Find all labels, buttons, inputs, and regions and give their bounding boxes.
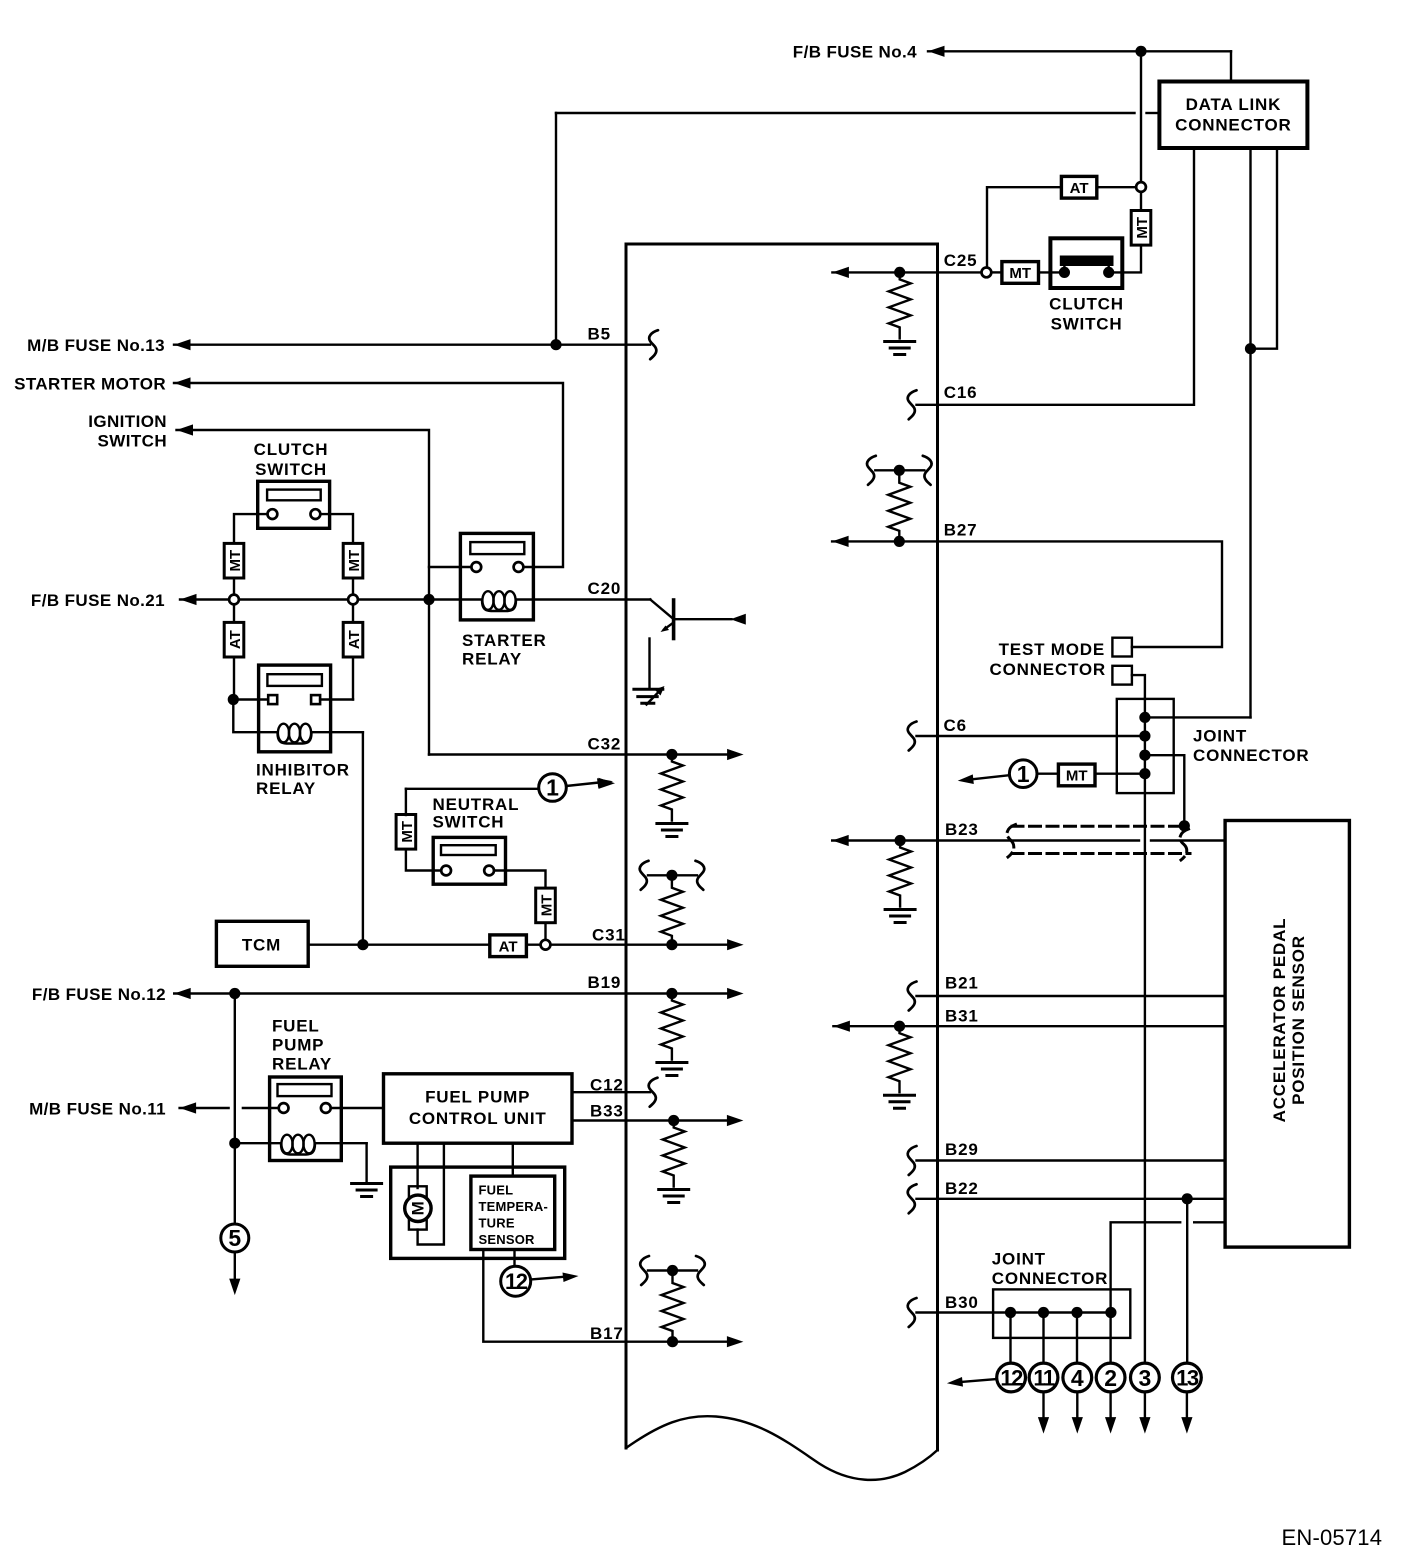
fuse tag MT vertical box [1131, 211, 1151, 246]
shield left end squiggle [1007, 825, 1015, 858]
svg-text:CLUTCH: CLUTCH [254, 440, 329, 459]
wire C31/TCM line [308, 944, 626, 946]
svg-text:FUEL: FUEL [479, 1183, 514, 1198]
svg-text:C12: C12 [590, 1076, 624, 1095]
ECM torn bottom edge [626, 1416, 938, 1480]
svg-text:13: 13 [1176, 1365, 1199, 1390]
wire coil to ground [365, 1143, 367, 1182]
svg-text:STARTER MOTOR: STARTER MOTOR [14, 375, 166, 394]
node junction B22 to circled 13 [1182, 1193, 1193, 1204]
svg-text:2: 2 [1104, 1365, 1117, 1391]
svg-text:M/B FUSE No.11: M/B FUSE No.11 [29, 1100, 166, 1119]
svg-text:INHIBITOR: INHIBITOR [256, 761, 350, 780]
circled 1 arrow into ECM [599, 778, 616, 789]
svg-text:NEUTRAL: NEUTRAL [433, 795, 520, 814]
wire STARTER MOTOR line [174, 383, 563, 567]
arrow from circled 1 to ECM [972, 775, 1010, 779]
svg-text:B30: B30 [945, 1293, 979, 1312]
break squiggle C12 [649, 1078, 658, 1107]
circled 13 [1173, 1363, 1202, 1392]
wire C16 line [917, 148, 1195, 405]
ECM box right edge [936, 244, 939, 1450]
arrow from circled 12 to ECM [961, 1379, 997, 1382]
wire circled 13 drop [1186, 1199, 1188, 1364]
node JC pin2 (C6) [1139, 730, 1150, 741]
node junction B17 [667, 1336, 678, 1347]
svg-text:B22: B22 [945, 1179, 979, 1198]
node junction inhibitor coil [357, 939, 368, 950]
svg-text:B29: B29 [945, 1140, 979, 1159]
wire feed down to circled 5 [234, 1143, 236, 1224]
wire M/B FUSE No.13 line [174, 344, 626, 346]
node junction B19 [666, 988, 677, 999]
wire through JC [1144, 699, 1146, 1363]
svg-text:5: 5 [228, 1225, 241, 1251]
wire B21 line [917, 995, 1226, 997]
svg-text:1: 1 [546, 775, 559, 801]
contact squares [268, 695, 277, 704]
wire pin1 to DLC drop [1145, 716, 1251, 718]
fuse tag MT box [1002, 262, 1039, 284]
resistor B27 pull-up (bar on top) [867, 456, 932, 542]
svg-text:M: M [408, 1201, 427, 1215]
wire C31 inside ECM [626, 944, 729, 946]
component FUEL PUMP RELAY [270, 1077, 342, 1161]
resistor C31 pull-up (bar on top) [640, 861, 705, 945]
circled 4 [1063, 1363, 1092, 1392]
node open circle C31 [541, 940, 551, 950]
wire C20 line [533, 598, 650, 600]
wire right contact out [320, 698, 353, 700]
svg-text:IGNITION: IGNITION [88, 412, 167, 431]
wire circled 5 to arrow [234, 1252, 236, 1280]
wire MT up to circled1 line [405, 789, 407, 815]
ECM box top edge [626, 243, 938, 246]
svg-text:B31: B31 [945, 1007, 979, 1026]
wire B29 line [917, 1159, 1226, 1161]
wire FPCU to fuel temp sensor [512, 1143, 514, 1176]
component CLUTCH SWITCH (top) box [1050, 238, 1122, 288]
node junction B27 [894, 536, 905, 547]
fuse tag AT on line [490, 935, 527, 957]
component STARTER RELAY [460, 533, 533, 620]
wire pin3 to shield drain [1145, 755, 1184, 820]
break squiggle B5 [649, 330, 658, 359]
node junction B31 [894, 1021, 905, 1032]
ECM box left edge [625, 244, 628, 1448]
ground [657, 824, 687, 837]
contact bar [1060, 256, 1114, 267]
wire circle to MT tag [991, 271, 1002, 273]
wire B23 line (hop over vertical) [832, 839, 1139, 841]
svg-text:SWITCH: SWITCH [255, 460, 327, 479]
svg-text:F/B FUSE No.21: F/B FUSE No.21 [31, 591, 165, 610]
svg-text:12: 12 [505, 1269, 528, 1294]
fuse tag MT [224, 543, 244, 578]
resistor B23 pulldown [889, 841, 911, 907]
arrows below circles [1042, 1392, 1044, 1419]
wire motor loop back to FPCU [418, 1143, 444, 1244]
svg-text:11: 11 [1033, 1365, 1055, 1390]
wire dot down to coil [233, 700, 276, 733]
node open circle right chain [348, 595, 358, 605]
contact dots [1059, 267, 1070, 278]
node junction on F/B4 line [1135, 46, 1146, 57]
svg-text:TCM: TCM [242, 936, 281, 955]
svg-text:B21: B21 [945, 974, 979, 993]
circled 12 [501, 1266, 531, 1296]
wire C25 line from arrow to circle [832, 271, 981, 273]
wire DLC middle drop [1249, 148, 1251, 717]
component ACCELERATOR PEDAL POSITION SENSOR [1225, 821, 1349, 1248]
node JC pin3 [1139, 750, 1150, 761]
fuse tag AT box [1061, 176, 1096, 198]
fuse tag MT [536, 888, 556, 923]
ground [659, 1190, 689, 1203]
svg-text:B19: B19 [588, 973, 622, 992]
ground [657, 1063, 687, 1076]
wire B27 to test mode connector [938, 541, 1223, 647]
connector DATA LINK CONNECTOR box [1159, 82, 1307, 149]
wire F/B FUSE No.4 line [928, 50, 1231, 52]
wire left contact to MT [406, 849, 441, 870]
wire ignition branch to starter relay contact [429, 566, 471, 568]
wire right contact chain [320, 514, 353, 543]
svg-text:C31: C31 [592, 926, 626, 945]
wire B5 to DLC (hop over vertical) [556, 112, 1135, 114]
wire MT drop below circle [1140, 192, 1142, 211]
svg-text:RELAY: RELAY [256, 779, 316, 798]
resistor B19 pulldown [661, 994, 683, 1060]
resistor B17 pull (bar on top) [640, 1256, 705, 1341]
wire MT down to C31 circle [544, 923, 546, 940]
node junction C25 resistor [894, 267, 905, 278]
component TCM box [216, 921, 308, 966]
node junction fuel pump feed [229, 988, 240, 999]
svg-text:POSITION SENSOR: POSITION SENSOR [1289, 935, 1308, 1105]
svg-text:EN-05714: EN-05714 [1282, 1525, 1383, 1550]
node JC pin4 [1139, 768, 1150, 779]
break squiggle C6 [908, 722, 917, 751]
wire dot to contact [233, 698, 268, 700]
circled 5 [221, 1224, 249, 1252]
svg-text:FUEL: FUEL [272, 1017, 320, 1036]
component FUEL TEMPERATURE SENSOR [471, 1176, 555, 1249]
wire left contact chain [234, 514, 268, 543]
wire lower test square to JC [1132, 675, 1145, 699]
arrow from circled 12 [531, 1277, 564, 1280]
svg-text:C16: C16 [944, 383, 978, 402]
shield drain squiggle [1180, 829, 1188, 860]
svg-text:MT: MT [1009, 265, 1031, 282]
wire C32 inside ECM [626, 753, 729, 755]
wire M/B FUSE No.11 line (hop over feed) [180, 1107, 229, 1109]
node junction C32 [666, 749, 677, 760]
coil [235, 1135, 367, 1155]
node junction B33 resistor [668, 1115, 679, 1126]
svg-text:AT: AT [1070, 180, 1089, 197]
wire pin4 to MT tag [1095, 773, 1145, 775]
svg-text:MT: MT [1066, 768, 1088, 785]
wire AT to C25 corner [987, 187, 1061, 267]
svg-text:ACCELERATOR PEDAL: ACCELERATOR PEDAL [1270, 918, 1289, 1123]
circled 1 (right) [1037, 773, 1058, 775]
wire DLC right drop with jog [1251, 148, 1278, 349]
svg-text:B23: B23 [945, 820, 979, 839]
svg-text:F/B FUSE No.12: F/B FUSE No.12 [32, 985, 166, 1004]
wire right contact to FPCU [331, 1107, 384, 1109]
wire sensor to circled 12 [513, 1250, 515, 1268]
node C25 open circle [982, 268, 992, 278]
wire C12 line [572, 1091, 650, 1093]
circled 12 [997, 1363, 1026, 1392]
wire coil right down to C31 [362, 732, 364, 945]
svg-text:TURE: TURE [479, 1216, 515, 1231]
svg-text:SWITCH: SWITCH [98, 432, 167, 451]
svg-text:B5: B5 [588, 325, 611, 344]
svg-text:CONNECTOR: CONNECTOR [1193, 746, 1309, 765]
svg-text:JOINT: JOINT [992, 1250, 1046, 1269]
svg-text:12: 12 [1000, 1365, 1023, 1390]
wire DLC feed down [1230, 51, 1232, 81]
wire C32 line from ignition drop [429, 753, 626, 755]
svg-text:3: 3 [1139, 1365, 1152, 1391]
svg-text:CONNECTOR: CONNECTOR [990, 660, 1106, 679]
wire FPCU to motor [416, 1143, 418, 1188]
fuse tag MT [1058, 764, 1095, 786]
component JOINT CONNECTOR (right) [1117, 699, 1174, 793]
wire B33 line [572, 1119, 729, 1121]
arrow to F/B FUSE No.4 [928, 46, 945, 57]
svg-text:JOINT: JOINT [1193, 727, 1247, 746]
contact circles [268, 509, 278, 519]
wire right contact to MT [494, 871, 546, 889]
node JC pin1 [1139, 712, 1150, 723]
wire fuel pump feed drop [234, 994, 236, 1144]
fuse tag AT left [233, 604, 235, 622]
fuse tag AT right [352, 604, 354, 622]
wire F/B FUSE No.21 line [180, 598, 460, 600]
ground [885, 342, 915, 355]
wire sensor to B17 [483, 1250, 626, 1342]
wire junction to AT circle [1140, 51, 1142, 182]
wire B5 stub inside ECM [626, 344, 650, 346]
node junction DLC drops [1245, 343, 1256, 354]
coil [460, 591, 533, 611]
svg-text:RELAY: RELAY [462, 650, 522, 669]
node open circle left chain [229, 595, 239, 605]
svg-text:4: 4 [1071, 1365, 1084, 1391]
wire AT down to inhibitor right contact [352, 657, 354, 700]
svg-text:SWITCH: SWITCH [1051, 315, 1123, 334]
svg-text:B33: B33 [590, 1102, 624, 1121]
node junction on M/B13 [550, 339, 561, 350]
wire B17 inside ECM [626, 1340, 729, 1342]
fuse tag MT [343, 543, 363, 578]
svg-text:SWITCH: SWITCH [433, 813, 505, 832]
wire IGNITION SWITCH line [177, 430, 430, 755]
wire [352, 578, 354, 595]
wire MT to clutch switch [1114, 245, 1141, 272]
contact circles [471, 562, 481, 572]
svg-text:TEMPERA-: TEMPERA- [479, 1199, 549, 1214]
transistor inside ECM [650, 600, 746, 690]
svg-text:M/B FUSE No.13: M/B FUSE No.13 [27, 336, 165, 355]
ground [885, 1095, 915, 1108]
break squiggle C16 [908, 390, 917, 419]
svg-text:CONNECTOR: CONNECTOR [1175, 116, 1291, 135]
svg-text:CLUTCH: CLUTCH [1049, 295, 1124, 314]
circled 3 [1131, 1363, 1160, 1392]
node AT branch circle [1136, 182, 1146, 192]
wire [233, 578, 235, 595]
svg-text:TEST MODE: TEST MODE [999, 640, 1105, 659]
test mode connector squares [1112, 638, 1132, 657]
ground (slashed) under transistor [634, 686, 665, 705]
svg-text:FUEL PUMP: FUEL PUMP [425, 1088, 530, 1107]
svg-text:C20: C20 [588, 579, 622, 598]
wire drops to circles [1009, 1313, 1011, 1364]
svg-text:C32: C32 [588, 735, 622, 754]
wire MT tag to clutch contact [1039, 271, 1060, 273]
wire B30 line [917, 1311, 1111, 1313]
component FUEL PUMP CONTROL UNIT [384, 1074, 573, 1143]
wire B22 line [917, 1198, 1226, 1200]
circled 11 [1029, 1363, 1058, 1392]
node junction B23 [895, 835, 906, 846]
svg-text:SENSOR: SENSOR [479, 1232, 536, 1247]
wire AT branch [1097, 186, 1136, 188]
fuse tag MT [396, 815, 416, 850]
resistor C32 pulldown [661, 755, 683, 821]
svg-text:C25: C25 [944, 251, 978, 270]
wire B27 line [832, 540, 937, 542]
node JC2 pin dots [1005, 1307, 1016, 1318]
fuel pump assembly box [391, 1167, 565, 1258]
wire circled 2 feed (hop over 13 drop) [1194, 1221, 1225, 1223]
shielded wire dashed box top [1012, 825, 1180, 828]
wire B31 line [833, 1025, 1225, 1027]
svg-text:RELAY: RELAY [272, 1055, 332, 1074]
svg-text:STARTER: STARTER [462, 631, 547, 650]
node shield drain junction [1179, 820, 1190, 831]
ground [885, 910, 915, 923]
resistor C25 pulldown [889, 272, 911, 338]
svg-text:B27: B27 [944, 521, 978, 540]
node junction ignition drop [423, 594, 434, 605]
svg-text:AT: AT [499, 938, 518, 955]
wire AT to inhibitor dot [233, 657, 235, 700]
svg-text:B17: B17 [590, 1324, 624, 1343]
motor M [409, 1186, 427, 1229]
resistor B31 pulldown [889, 1026, 911, 1092]
wire B19 inside ECM [626, 992, 729, 994]
wire F/B FUSE No.12 / B19 line [174, 992, 626, 994]
svg-text:C6: C6 [944, 716, 967, 735]
wire C6 line [917, 735, 1145, 737]
node junction left [228, 694, 239, 705]
svg-text:CONNECTOR: CONNECTOR [992, 1269, 1108, 1288]
coil [278, 724, 363, 744]
node junction C31 [666, 939, 677, 950]
node junction coil feed [229, 1138, 240, 1149]
svg-text:PUMP: PUMP [272, 1036, 324, 1055]
svg-text:DATA LINK: DATA LINK [1186, 95, 1282, 114]
svg-text:F/B FUSE No.4: F/B FUSE No.4 [793, 43, 917, 62]
circled 2 [1096, 1363, 1125, 1392]
resistor B33 pulldown [663, 1121, 685, 1187]
svg-text:CONTROL UNIT: CONTROL UNIT [409, 1109, 547, 1128]
svg-text:1: 1 [1017, 761, 1030, 787]
ground [352, 1184, 382, 1197]
shielded wire dashed box bottom [1012, 852, 1190, 855]
wire drop to M/B13 line [555, 113, 557, 345]
circled 1 (left) with arrow [406, 788, 539, 790]
